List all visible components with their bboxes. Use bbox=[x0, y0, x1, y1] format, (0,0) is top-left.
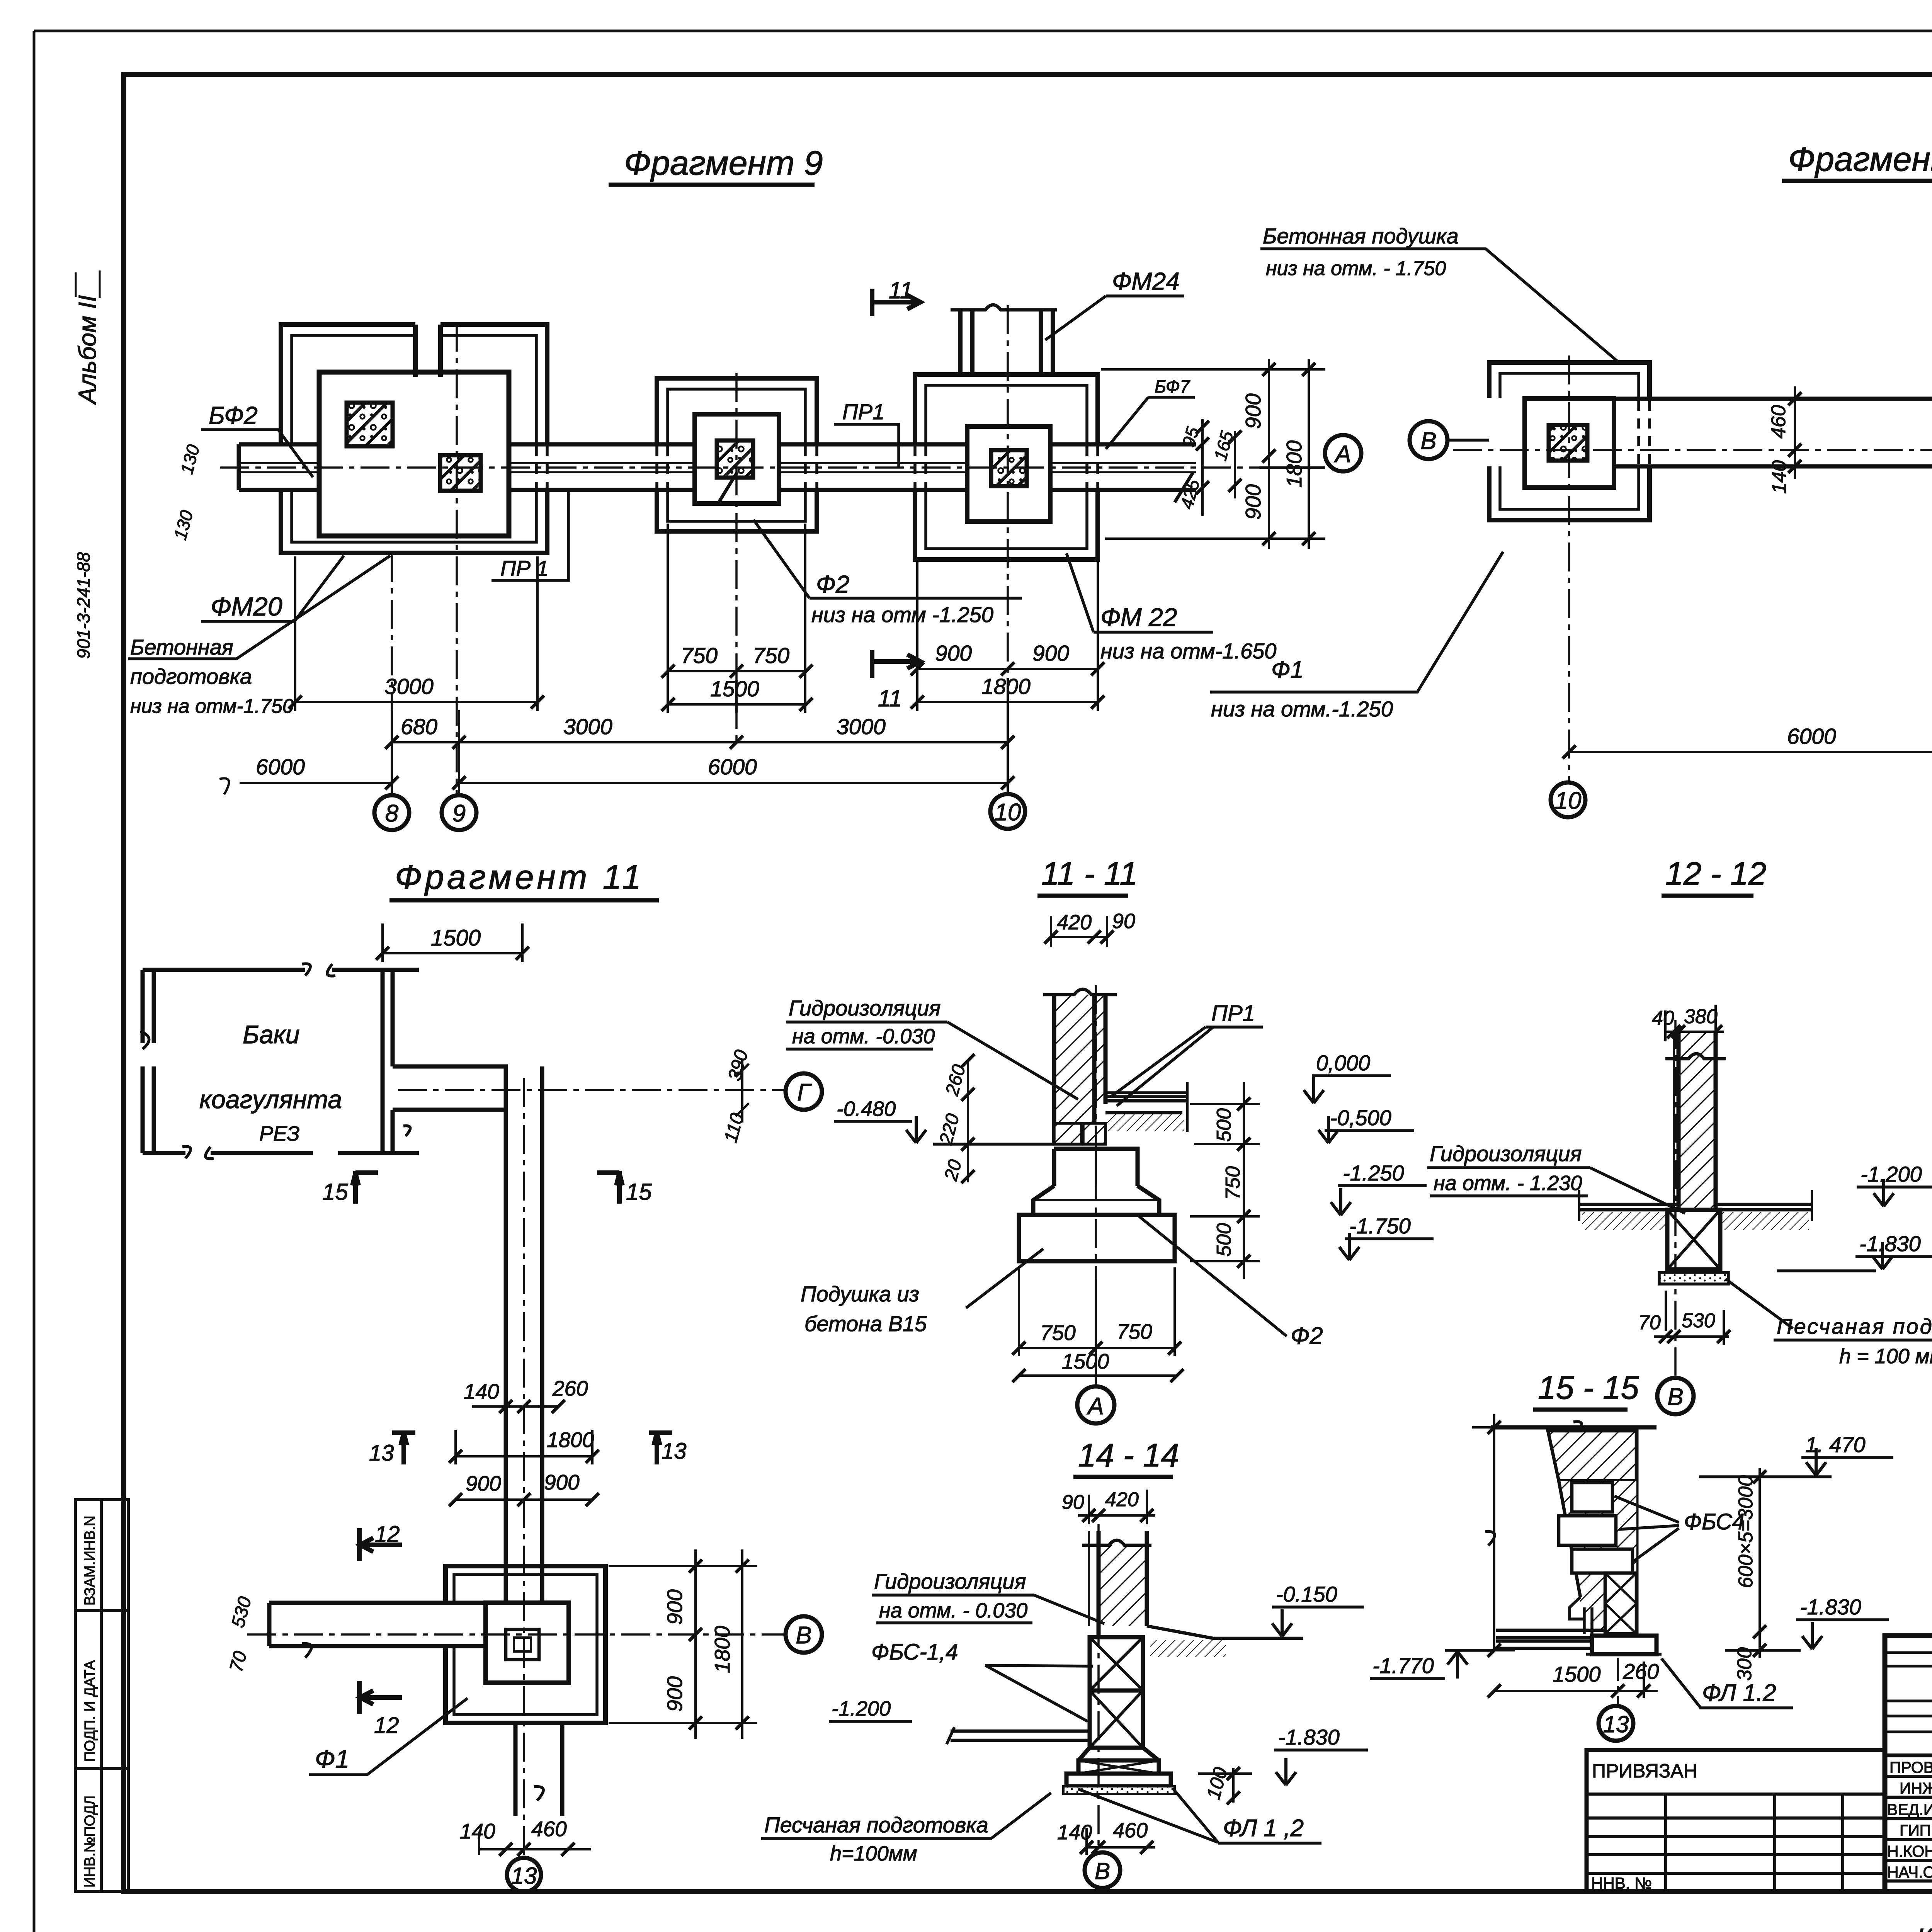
svg-text:ФБС4: ФБС4 bbox=[1684, 1509, 1745, 1534]
svg-text:низ на отм -1.250: низ на отм -1.250 bbox=[811, 602, 993, 627]
svg-text:70: 70 bbox=[1638, 1311, 1661, 1334]
svg-text:260: 260 bbox=[552, 1376, 588, 1400]
svg-text:Г: Г bbox=[797, 1079, 812, 1106]
svg-text:ИНВ.№ПОДЛ: ИНВ.№ПОДЛ bbox=[82, 1796, 98, 1888]
svg-text:750: 750 bbox=[1040, 1321, 1076, 1345]
svg-text:460: 460 bbox=[1113, 1819, 1148, 1842]
svg-text:1500: 1500 bbox=[710, 677, 759, 701]
svg-text:140: 140 bbox=[464, 1379, 499, 1403]
svg-text:1500: 1500 bbox=[1062, 1349, 1109, 1373]
svg-text:-0.480: -0.480 bbox=[837, 1097, 896, 1121]
svg-text:Ф1: Ф1 bbox=[315, 1745, 349, 1773]
svg-text:ФЛ 1.2: ФЛ 1.2 bbox=[1702, 1680, 1776, 1706]
svg-text:500: 500 bbox=[1213, 1223, 1235, 1257]
svg-text:680: 680 bbox=[401, 714, 437, 739]
svg-text:А: А bbox=[1333, 441, 1351, 468]
svg-text:h=100мм: h=100мм bbox=[830, 1842, 917, 1865]
svg-text:ПР1: ПР1 bbox=[1211, 1001, 1255, 1026]
svg-text:-0.150: -0.150 bbox=[1276, 1582, 1337, 1606]
svg-text:Ф1: Ф1 bbox=[1271, 656, 1304, 683]
svg-text:1500: 1500 bbox=[431, 925, 481, 951]
svg-text:900: 900 bbox=[544, 1470, 580, 1494]
svg-text:20: 20 bbox=[940, 1157, 966, 1183]
svg-text:ФЛ 1 ,2: ФЛ 1 ,2 bbox=[1223, 1815, 1304, 1842]
svg-text:0,000: 0,000 bbox=[1316, 1051, 1370, 1075]
svg-text:1800: 1800 bbox=[547, 1428, 594, 1452]
svg-text:420: 420 bbox=[1057, 911, 1092, 934]
svg-text:750: 750 bbox=[1117, 1320, 1152, 1344]
svg-text:РЕЗ: РЕЗ bbox=[259, 1122, 300, 1145]
svg-text:ПР 1: ПР 1 bbox=[500, 556, 549, 580]
svg-text:260: 260 bbox=[942, 1062, 969, 1098]
svg-text:13: 13 bbox=[511, 1863, 537, 1889]
svg-text:300: 300 bbox=[1733, 1647, 1756, 1681]
svg-text:Альбом II: Альбом II bbox=[73, 295, 101, 405]
svg-text:380: 380 bbox=[1684, 1005, 1718, 1028]
svg-text:В: В bbox=[1095, 1858, 1110, 1884]
svg-text:420: 420 bbox=[1105, 1488, 1139, 1511]
svg-text:ФМ20: ФМ20 bbox=[211, 592, 282, 621]
svg-text:Гидроизоляция: Гидроизоляция bbox=[874, 1569, 1026, 1594]
svg-text:130: 130 bbox=[170, 508, 197, 542]
svg-text:низ на отм.-1.250: низ на отм.-1.250 bbox=[1211, 697, 1393, 721]
svg-text:13: 13 bbox=[662, 1439, 687, 1464]
svg-text:110: 110 bbox=[720, 1111, 748, 1145]
svg-text:низ на отм-1.650: низ на отм-1.650 bbox=[1100, 639, 1276, 663]
svg-text:3000: 3000 bbox=[837, 714, 886, 739]
svg-text:ФМ24: ФМ24 bbox=[1112, 267, 1180, 295]
svg-text:Гидроизоляция: Гидроизоляция bbox=[789, 996, 940, 1020]
svg-text:530: 530 bbox=[228, 1594, 255, 1629]
svg-text:БФ7: БФ7 bbox=[1155, 376, 1190, 396]
svg-text:на отм. -0.030: на отм. -0.030 bbox=[792, 1025, 935, 1048]
svg-text:900: 900 bbox=[466, 1471, 501, 1495]
svg-text:-1.770: -1.770 bbox=[1372, 1653, 1434, 1678]
svg-text:-1.830: -1.830 bbox=[1859, 1231, 1921, 1256]
svg-text:40: 40 bbox=[1652, 1007, 1674, 1029]
svg-text:900: 900 bbox=[663, 1589, 687, 1625]
svg-text:750: 750 bbox=[681, 643, 718, 668]
svg-text:14 - 14: 14 - 14 bbox=[1078, 1437, 1179, 1473]
svg-text:90: 90 bbox=[1112, 910, 1135, 933]
svg-text:15: 15 bbox=[322, 1179, 348, 1205]
svg-text:12 - 12: 12 - 12 bbox=[1665, 855, 1767, 892]
svg-text:1500: 1500 bbox=[1553, 1662, 1601, 1686]
svg-text:1800: 1800 bbox=[981, 674, 1031, 699]
svg-text:1800: 1800 bbox=[710, 1626, 734, 1673]
svg-text:Бетонная: Бетонная bbox=[130, 635, 233, 659]
svg-text:11: 11 bbox=[889, 277, 913, 303]
svg-text:3000: 3000 bbox=[384, 674, 434, 699]
svg-text:10: 10 bbox=[1555, 787, 1582, 814]
svg-text:140: 140 bbox=[460, 1819, 495, 1843]
svg-text:900: 900 bbox=[1241, 484, 1265, 520]
svg-text:ФБС-1,4: ФБС-1,4 bbox=[871, 1639, 958, 1665]
svg-text:низ на отм. - 1.750: низ на отм. - 1.750 bbox=[1266, 257, 1446, 280]
svg-text:15 - 15: 15 - 15 bbox=[1538, 1369, 1639, 1406]
svg-text:1. 470: 1. 470 bbox=[1805, 1432, 1866, 1457]
svg-text:140: 140 bbox=[1768, 460, 1791, 494]
svg-text:Баки: Баки bbox=[243, 1020, 300, 1049]
svg-text:90: 90 bbox=[1062, 1491, 1084, 1514]
svg-text:-1.830: -1.830 bbox=[1278, 1725, 1340, 1749]
svg-text:НАЧ.ОТД: НАЧ.ОТД bbox=[1887, 1863, 1932, 1881]
svg-text:Фрагмент 9: Фрагмент 9 bbox=[624, 144, 823, 182]
svg-text:11: 11 bbox=[878, 685, 902, 711]
svg-text:140: 140 bbox=[1057, 1821, 1092, 1844]
svg-text:Ф2: Ф2 bbox=[816, 570, 849, 598]
svg-text:165: 165 bbox=[1210, 429, 1237, 463]
svg-text:-1.830: -1.830 bbox=[1800, 1595, 1861, 1619]
svg-text:Подушка из: Подушка из bbox=[801, 1282, 919, 1306]
svg-text:100: 100 bbox=[1202, 1765, 1232, 1802]
svg-text:6000: 6000 bbox=[708, 755, 757, 779]
svg-text:9: 9 bbox=[452, 800, 466, 827]
svg-text:-1.750: -1.750 bbox=[1349, 1214, 1411, 1238]
svg-text:ПРИВЯЗАН: ПРИВЯЗАН bbox=[1592, 1760, 1697, 1782]
svg-text:Бетонная подушка: Бетонная подушка bbox=[1263, 224, 1459, 248]
svg-text:425: 425 bbox=[1176, 477, 1203, 511]
svg-text:подготовка: подготовка bbox=[130, 664, 252, 689]
svg-text:3000: 3000 bbox=[563, 714, 612, 739]
svg-text:10: 10 bbox=[995, 799, 1021, 826]
svg-text:70: 70 bbox=[226, 1649, 251, 1674]
svg-text:900: 900 bbox=[663, 1676, 687, 1712]
svg-text:8: 8 bbox=[385, 800, 399, 827]
svg-text:ННВ. №: ННВ. № bbox=[1591, 1874, 1652, 1892]
svg-text:Песчаная подготовка: Песчаная подготовка bbox=[1777, 1314, 1932, 1338]
svg-text:низ на отм-1.750: низ на отм-1.750 bbox=[130, 695, 294, 718]
svg-text:-1.200: -1.200 bbox=[832, 1697, 891, 1720]
svg-text:Ф2: Ф2 bbox=[1291, 1323, 1323, 1349]
svg-text:900: 900 bbox=[1241, 393, 1265, 429]
svg-text:500: 500 bbox=[1213, 1108, 1235, 1142]
svg-text:ВЕД.ИНЖ: ВЕД.ИНЖ bbox=[1887, 1801, 1932, 1818]
svg-text:Фрагмент 10: Фрагмент 10 bbox=[1788, 140, 1932, 178]
svg-text:220: 220 bbox=[935, 1111, 963, 1147]
svg-text:h = 100 мм: h = 100 мм bbox=[1839, 1345, 1932, 1368]
svg-text:коагулянта: коагулянта bbox=[199, 1085, 342, 1114]
svg-text:Гидроизоляция: Гидроизоляция bbox=[1430, 1141, 1582, 1166]
svg-text:ПР1: ПР1 bbox=[842, 400, 884, 424]
svg-text:900: 900 bbox=[1032, 641, 1069, 666]
svg-text:15: 15 bbox=[626, 1179, 652, 1205]
svg-text:В: В bbox=[796, 1622, 811, 1649]
svg-text:БФ2: БФ2 bbox=[209, 401, 258, 429]
svg-text:750: 750 bbox=[753, 643, 789, 668]
svg-text:А: А bbox=[1086, 1393, 1104, 1420]
svg-text:13: 13 bbox=[1603, 1711, 1629, 1737]
svg-text:бетона В15: бетона В15 bbox=[804, 1311, 927, 1336]
svg-text:12: 12 bbox=[374, 1713, 399, 1738]
svg-text:260: 260 bbox=[1622, 1659, 1659, 1684]
svg-text:ПРОВЕР.: ПРОВЕР. bbox=[1889, 1759, 1932, 1776]
svg-text:13: 13 bbox=[369, 1440, 394, 1466]
svg-text:11 - 11: 11 - 11 bbox=[1041, 855, 1138, 892]
svg-text:В: В bbox=[1667, 1384, 1683, 1410]
svg-text:6000: 6000 bbox=[256, 755, 305, 779]
svg-text:ФМ 22: ФМ 22 bbox=[1100, 603, 1177, 631]
svg-text:на отм. - 0.030: на отм. - 0.030 bbox=[879, 1599, 1027, 1622]
svg-text:ВЗАМ.ИНВ.N: ВЗАМ.ИНВ.N bbox=[82, 1515, 98, 1605]
svg-text:1800: 1800 bbox=[1282, 440, 1306, 488]
svg-text:12: 12 bbox=[375, 1522, 400, 1547]
svg-text:130: 130 bbox=[176, 442, 203, 476]
svg-text:6000: 6000 bbox=[1787, 724, 1836, 749]
svg-text:Фрагмент 11: Фрагмент 11 bbox=[395, 858, 644, 896]
svg-text:Копировал: Алешикова: Копировал: Алешикова bbox=[1917, 1923, 1932, 1932]
svg-text:ГИП: ГИП bbox=[1900, 1821, 1931, 1839]
svg-text:901-3-241-88: 901-3-241-88 bbox=[73, 552, 94, 659]
svg-text:-0,500: -0,500 bbox=[1330, 1105, 1391, 1130]
svg-text:Н.КОНТР.: Н.КОНТР. bbox=[1887, 1842, 1932, 1860]
svg-text:ИНЖ.: ИНЖ. bbox=[1900, 1779, 1932, 1797]
svg-text:460: 460 bbox=[1767, 405, 1790, 439]
svg-text:на отм. - 1.230: на отм. - 1.230 bbox=[1434, 1172, 1582, 1195]
svg-text:750: 750 bbox=[1222, 1166, 1244, 1200]
svg-text:-1.200: -1.200 bbox=[1861, 1162, 1922, 1186]
svg-text:В: В bbox=[1420, 428, 1436, 454]
svg-text:ПОДП. И ДАТА: ПОДП. И ДАТА bbox=[82, 1660, 98, 1762]
svg-text:900: 900 bbox=[935, 641, 972, 666]
svg-text:-1.250: -1.250 bbox=[1343, 1161, 1404, 1185]
svg-text:530: 530 bbox=[1682, 1310, 1715, 1332]
svg-text:Песчаная подготовка: Песчаная подготовка bbox=[764, 1813, 988, 1837]
svg-text:460: 460 bbox=[531, 1817, 567, 1841]
